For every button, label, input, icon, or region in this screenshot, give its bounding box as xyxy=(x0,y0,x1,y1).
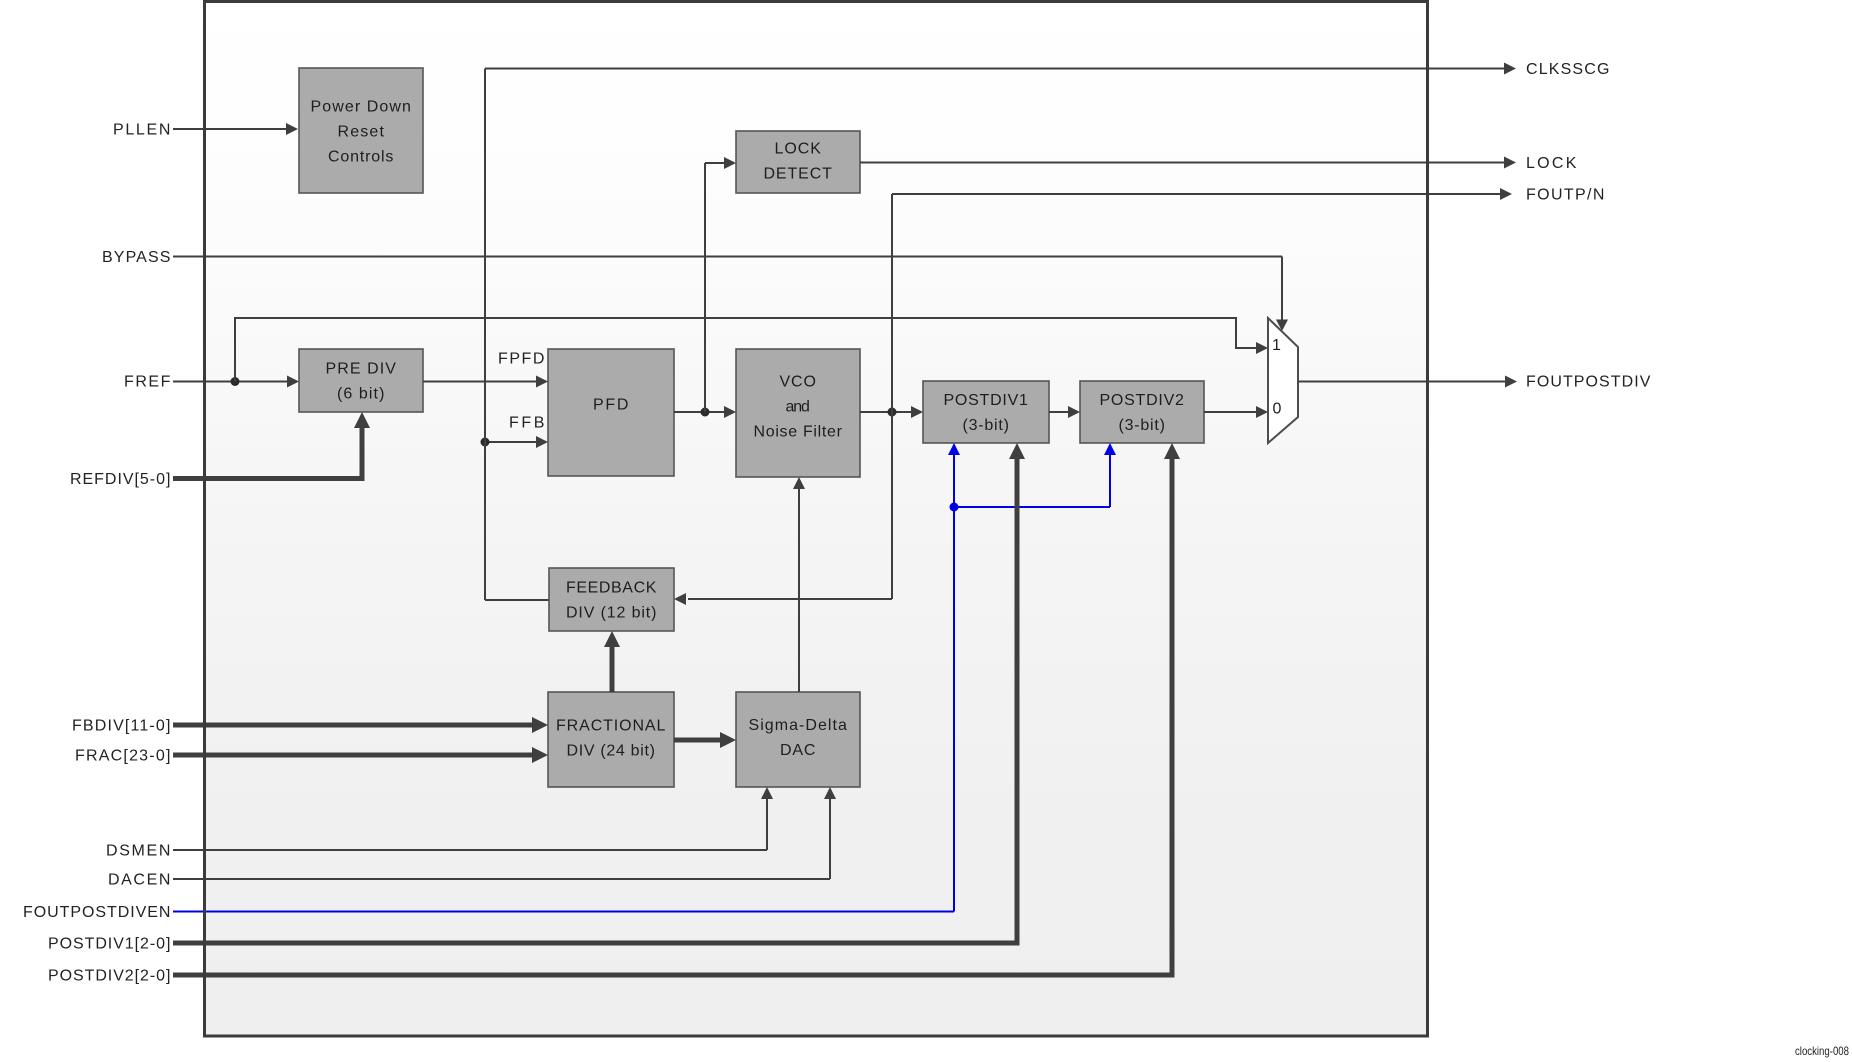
svg-text:1: 1 xyxy=(1272,337,1281,354)
svg-text:DETECT: DETECT xyxy=(764,166,833,183)
block POSTDIV2 (3-bit) xyxy=(1080,381,1204,443)
wire LOCK DETECT output LOCK xyxy=(860,157,1516,169)
wire BYPASS to mux select xyxy=(173,257,1288,332)
svg-text:PLLEN: PLLEN xyxy=(113,122,171,139)
svg-text:FFB: FFB xyxy=(509,415,545,432)
wire PFD output to VCO xyxy=(674,406,736,418)
svg-text:DACEN: DACEN xyxy=(108,872,171,889)
svg-text:POSTDIV1[2-0]: POSTDIV1[2-0] xyxy=(48,936,171,953)
block PRE DIV (6 bit) xyxy=(299,349,423,412)
bus FRAC[23-0] to FRACTIONAL DIV xyxy=(173,747,548,763)
svg-text:REFDIV[5-0]: REFDIV[5-0] xyxy=(70,471,171,488)
svg-text:FPFD: FPFD xyxy=(498,351,545,368)
svg-text:POSTDIV1: POSTDIV1 xyxy=(944,392,1029,409)
mux output select xyxy=(1268,318,1298,443)
svg-text:DIV (24 bit): DIV (24 bit) xyxy=(567,743,656,760)
bus FRACTIONAL DIV to FEEDBACK DIV xyxy=(604,631,620,692)
svg-text:FOUTPOSTDIV: FOUTPOSTDIV xyxy=(1526,374,1651,391)
svg-text:(3-bit): (3-bit) xyxy=(963,417,1010,434)
block POSTDIV1 (3-bit) xyxy=(923,381,1049,443)
bus FBDIV[11-0] to FRACTIONAL DIV xyxy=(173,717,548,733)
node VCO output junction xyxy=(888,408,897,417)
svg-text:Noise Filter: Noise Filter xyxy=(754,424,843,441)
svg-text:FOUTP/N: FOUTP/N xyxy=(1526,187,1605,204)
block Sigma-Delta DAC xyxy=(736,692,860,787)
wire PLLEN to Power Down Reset Controls xyxy=(173,123,298,135)
wire FREF to PRE DIV xyxy=(173,376,299,388)
bus FRACTIONAL DIV to Sigma-Delta DAC xyxy=(674,732,736,748)
svg-text:DIV (12 bit): DIV (12 bit) xyxy=(566,605,657,622)
block Power Down Reset Controls xyxy=(299,68,423,193)
wire FOUTP/N output xyxy=(892,188,1512,412)
node PFD output junction xyxy=(701,408,710,417)
wire feedback vertical to CLKSSCG and FEEDBACK DIV output xyxy=(485,69,549,601)
wire FREF bypass branch to mux input 1 xyxy=(235,318,1268,382)
svg-text:FRAC[23-0]: FRAC[23-0] xyxy=(75,748,171,765)
wire DSMEN to Sigma-Delta DAC xyxy=(173,787,773,850)
svg-text:FBDIV[11-0]: FBDIV[11-0] xyxy=(72,718,171,735)
block VCO and Noise Filter xyxy=(736,349,860,477)
node FOUTPOSTDIVEN blue junction xyxy=(950,503,959,512)
svg-text:Sigma-Delta: Sigma-Delta xyxy=(749,717,848,734)
PLL block outer frame background xyxy=(205,2,1428,1037)
wire POSTDIV2 to mux input 0 xyxy=(1204,406,1268,418)
svg-text:BYPASS: BYPASS xyxy=(102,249,171,266)
svg-text:and: and xyxy=(786,399,811,416)
svg-text:FREF: FREF xyxy=(124,374,171,391)
svg-text:(3-bit): (3-bit) xyxy=(1119,417,1166,434)
svg-text:Controls: Controls xyxy=(328,149,394,166)
svg-text:LOCK: LOCK xyxy=(775,141,822,158)
svg-text:DAC: DAC xyxy=(780,742,816,759)
wire Sigma-Delta DAC output to VCO xyxy=(793,477,805,692)
svg-text:(6 bit): (6 bit) xyxy=(337,386,385,403)
block PFD xyxy=(548,349,674,476)
wire mux output FOUTPOSTDIV xyxy=(1298,376,1517,388)
svg-text:0: 0 xyxy=(1273,401,1282,418)
wire FFB into PFD xyxy=(485,436,548,448)
wire CLKSSCG output xyxy=(485,63,1516,75)
wire PRE DIV output FPFD to PFD xyxy=(423,376,548,388)
wire VCO output to POSTDIV1 xyxy=(860,406,923,418)
wire POSTDIV1 to POSTDIV2 xyxy=(1049,406,1080,418)
block LOCK DETECT xyxy=(736,131,860,193)
bus REFDIV[5-0] to PRE DIV xyxy=(173,412,370,481)
bus POSTDIV1[2-0] to POSTDIV1 xyxy=(173,443,1025,946)
svg-text:PFD: PFD xyxy=(593,397,629,414)
wire VCO output down to FEEDBACK DIV input xyxy=(674,412,892,605)
svg-text:LOCK: LOCK xyxy=(1526,155,1577,172)
block FEEDBACK DIV (12 bit) xyxy=(549,568,674,631)
PLL block outer frame border xyxy=(205,2,1428,1037)
node FFB junction xyxy=(481,438,490,447)
svg-text:POSTDIV2[2-0]: POSTDIV2[2-0] xyxy=(48,968,171,985)
wire DACEN to Sigma-Delta DAC xyxy=(173,787,836,879)
svg-text:CLKSSCG: CLKSSCG xyxy=(1526,61,1610,78)
svg-text:POSTDIV2: POSTDIV2 xyxy=(1100,392,1185,409)
block FRACTIONAL DIV (24 bit) xyxy=(548,692,674,787)
wire FOUTPOSTDIVEN blue to POSTDIV1 and POSTDIV2 xyxy=(173,443,1116,912)
bus POSTDIV2[2-0] to POSTDIV2 xyxy=(173,443,1180,978)
wire branch to LOCK DETECT xyxy=(705,157,736,412)
svg-text:Reset: Reset xyxy=(338,124,385,141)
node FREF junction xyxy=(231,377,240,386)
svg-text:PRE DIV: PRE DIV xyxy=(326,361,397,378)
svg-text:FEEDBACK: FEEDBACK xyxy=(566,580,657,597)
svg-text:FOUTPOSTDIVEN: FOUTPOSTDIVEN xyxy=(23,904,171,921)
svg-text:clocking-008: clocking-008 xyxy=(1795,1044,1849,1058)
svg-text:Power Down: Power Down xyxy=(311,99,412,116)
svg-text:FRACTIONAL: FRACTIONAL xyxy=(556,718,666,735)
svg-text:DSMEN: DSMEN xyxy=(106,843,171,860)
svg-text:VCO: VCO xyxy=(780,374,817,391)
